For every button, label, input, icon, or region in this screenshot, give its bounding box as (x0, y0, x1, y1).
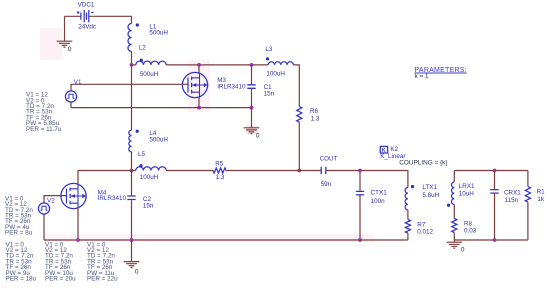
svg-text:R8: R8 (464, 220, 473, 227)
wire battery-left (65, 15, 82, 17)
svg-text:0: 0 (461, 247, 465, 254)
polarity dot L4 (136, 130, 139, 133)
wire ground stub G1 (64, 16, 66, 41)
inductor LRX1 (451, 182, 454, 204)
svg-text:1.3: 1.3 (216, 174, 225, 181)
wire R6 bottom to mid rail (298, 122, 300, 170)
wire bottom ground stub (131, 240, 133, 262)
inductor L2 (136, 61, 166, 65)
svg-text:R1: R1 (537, 189, 546, 196)
svg-text:PER = 20u: PER = 20u (45, 276, 76, 283)
wire R5 to COUT (226, 170, 321, 172)
node C1 top junction (250, 63, 254, 67)
svg-text:1.3: 1.3 (311, 115, 320, 122)
capacitor C2 (127, 196, 135, 200)
node CTX1 top junction (358, 169, 362, 173)
wire L3 to R6 corner (293, 65, 299, 107)
svg-text:0: 0 (256, 133, 260, 140)
resistor R5 (213, 168, 226, 173)
svg-text:115n: 115n (505, 197, 519, 204)
wire battery-right to corner (89, 16, 132, 23)
svg-text:15n: 15n (143, 203, 154, 210)
svg-text:59n: 59n (321, 181, 332, 188)
svg-text:R5: R5 (215, 161, 224, 168)
inductor L5 (136, 167, 166, 171)
node M3 drain junction (197, 63, 201, 67)
svg-text:R6: R6 (310, 108, 319, 115)
ground 0 (bottom) (124, 262, 140, 276)
capacitor COUT (321, 167, 326, 175)
wire CTX1 top stub (359, 171, 361, 191)
svg-text:100n: 100n (371, 198, 386, 205)
svg-text:10uH: 10uH (459, 191, 475, 198)
V1 parameters text block (26, 92, 62, 133)
wire C1 top stub (251, 65, 253, 84)
svg-text:CTX1: CTX1 (371, 190, 388, 197)
svg-text:V2: V2 (47, 198, 55, 205)
wire L5 to R5 (166, 170, 213, 172)
svg-text:0: 0 (68, 46, 72, 53)
node C2 bottom junction (130, 238, 134, 242)
svg-text:100uH: 100uH (140, 174, 159, 181)
wire CRX1 bottom stub (494, 194, 496, 240)
wire L1 to L2 corner (131, 52, 133, 65)
node C1 bottom junction (250, 106, 254, 110)
wire secondary bottom rail (454, 239, 528, 241)
node M4 source junction (76, 238, 80, 242)
svg-text:0.03: 0.03 (464, 228, 477, 235)
wire L2 lead (132, 64, 136, 66)
parameters text block B (bottom) (45, 241, 76, 282)
svg-text:L3: L3 (265, 46, 273, 53)
svg-text:CRX1: CRX1 (504, 189, 521, 196)
resistor R7 (405, 220, 410, 234)
node CRX1 bottom junction (493, 238, 497, 242)
polarity dot LRX1 (447, 204, 450, 207)
faint highlight tints (40, 28, 62, 60)
wire V1 source rail (71, 107, 252, 109)
polarity dot L1 (136, 23, 139, 26)
V2 parameters text block (left) (5, 195, 33, 236)
svg-text:PER = 18u: PER = 18u (6, 276, 37, 283)
svg-text:24Vdc: 24Vdc (78, 23, 96, 30)
polarity dot L2 (140, 59, 143, 62)
svg-text:LRX1: LRX1 (459, 183, 475, 190)
wire M3 drain stub (198, 65, 200, 73)
wire CTX1 bottom stub (359, 196, 361, 241)
capacitor CRX1 (490, 190, 498, 194)
svg-text:COUT: COUT (320, 156, 338, 163)
svg-text:VDC1: VDC1 (78, 2, 95, 9)
wire L4 bottom to mid junction (131, 152, 133, 171)
resistor R1 (525, 187, 530, 203)
wire R8 to bottom rail (453, 233, 455, 241)
wire V1 bottom stub (70, 102, 72, 108)
svg-text:PER = 22u: PER = 22u (87, 276, 118, 283)
node M3 source junction (197, 106, 201, 110)
wire R1 bottom lead (527, 202, 529, 240)
svg-text:K2: K2 (390, 146, 398, 153)
wire COUT to LTX1 corner (326, 171, 408, 188)
wire M3 source stub (198, 97, 200, 108)
text PARAMETERS heading (415, 67, 467, 74)
svg-text:PER = 11.7u: PER = 11.7u (26, 126, 62, 133)
svg-text:500uH: 500uH (149, 136, 168, 143)
parameters text block A (bottom) (6, 241, 37, 282)
wire main vertical chain down to L4 (131, 65, 133, 130)
wire M4 source stub (77, 208, 79, 240)
ground 0 (G1) (57, 41, 73, 53)
transistor M3 (IRLR3410 MOSFET) (182, 72, 207, 97)
resistor R6 (297, 107, 302, 123)
svg-text:0.012: 0.012 (417, 229, 433, 236)
svg-text:k = 1: k = 1 (415, 73, 429, 80)
parameters text block C (bottom) (87, 241, 118, 282)
inductor L3 (268, 62, 293, 65)
ground 0 (below C1) (244, 128, 260, 140)
wire V2 bottom stub (43, 214, 45, 240)
resistor R8 (452, 219, 457, 233)
wire top rail L2 to L3 (166, 64, 268, 66)
node CTX1 bottom junction (358, 238, 362, 242)
svg-text:L2: L2 (139, 45, 147, 52)
wire V2 top stub and gate wire (44, 196, 67, 204)
wire V1 top stub and gate rail (71, 84, 188, 91)
wire secondary top rail (454, 170, 528, 172)
svg-text:LTX1: LTX1 (422, 184, 437, 191)
wire LRX1 top lead (453, 171, 455, 183)
inductor L1 (128, 24, 132, 52)
inductor LTX1 (405, 188, 408, 210)
svg-text:R7: R7 (417, 221, 426, 228)
capacitor CTX1 (356, 191, 364, 195)
svg-text:IRLR3410: IRLR3410 (217, 84, 246, 91)
battery VDC1 (77, 10, 94, 22)
svg-text:500uH: 500uH (149, 29, 168, 36)
svg-text:PER = 8u: PER = 8u (5, 230, 33, 237)
inductor L4 (129, 130, 132, 152)
coupling K2 symbol (380, 146, 387, 154)
node R6/mid-rail junction (297, 169, 301, 173)
polarity dot L3 (266, 57, 269, 60)
wire C2 top stub (131, 171, 133, 196)
wire C1 bottom stub (251, 89, 253, 108)
transistor M4 (IRLR3410 MOSFET) (61, 183, 86, 208)
svg-text:500uH: 500uH (140, 71, 159, 78)
svg-text:0: 0 (135, 268, 139, 275)
svg-text:V1: V1 (74, 79, 82, 86)
polarity dot L5 (139, 164, 142, 167)
node CRX1 top junction (493, 169, 497, 173)
wire M4 drain to mid junction (78, 171, 132, 185)
svg-text:15n: 15n (264, 91, 275, 98)
svg-text:L5: L5 (138, 151, 146, 158)
svg-text:COUPLING = {k}: COUPLING = {k} (399, 160, 448, 167)
ground 0 (secondary) (447, 242, 465, 253)
wire R1 top lead (527, 171, 529, 187)
svg-text:100uH: 100uH (266, 71, 285, 78)
source V2 (VPULSE) (38, 203, 49, 214)
wire LRX1 to R8 (453, 204, 455, 218)
svg-text:IRLR3410: IRLR3410 (98, 195, 127, 202)
svg-text:1k: 1k (537, 196, 545, 203)
capacitor C1 (247, 85, 255, 89)
wire bottom rail (44, 239, 408, 241)
svg-text:5.8uH: 5.8uH (422, 192, 439, 199)
wire G4 stub (453, 240, 455, 242)
wire L5 lead (132, 170, 136, 172)
wire R7 to bottom rail (407, 233, 409, 240)
wire C1 ground stub (251, 108, 253, 128)
wire C2 bottom stub (131, 200, 133, 240)
wire LTX1 to R7 (407, 210, 409, 220)
source V1 (VPULSE) (65, 91, 76, 102)
node L1/L2 junction (130, 63, 134, 67)
wire CRX1 top stub (494, 171, 496, 190)
node L4/L5/C2 junction (130, 169, 134, 173)
polarity dot LTX1 (411, 185, 414, 188)
